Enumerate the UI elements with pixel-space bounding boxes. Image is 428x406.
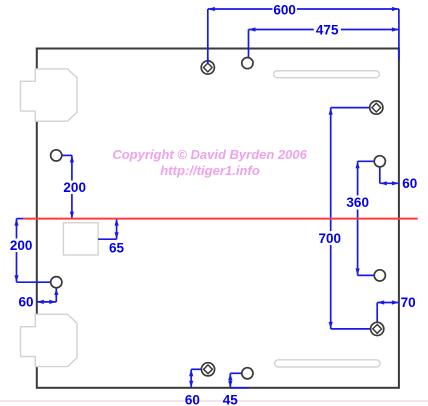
svg-text:600: 600	[273, 2, 296, 17]
svg-text:65: 65	[109, 241, 125, 256]
dimension 60 left	[18, 288, 58, 310]
hole bottom circle	[242, 368, 253, 379]
hole left upper circle	[51, 150, 62, 161]
svg-text:70: 70	[401, 295, 416, 310]
hole top diamond	[201, 59, 214, 75]
dimension 200 upper	[62, 155, 87, 218]
svg-text:200: 200	[63, 180, 86, 195]
dimension 200 lower	[9, 219, 51, 283]
hole right-top diamond	[370, 101, 383, 114]
dimension 70	[377, 295, 416, 322]
svg-text:60: 60	[402, 176, 417, 191]
left lug bottom	[21, 314, 78, 366]
plate outline	[37, 49, 399, 388]
faint line below drawing	[0, 400, 428, 402]
hole left lower circle	[51, 277, 62, 288]
svg-text:200: 200	[10, 238, 33, 253]
red centerline	[23, 218, 418, 220]
bottom slot	[275, 360, 380, 367]
svg-text:475: 475	[316, 23, 339, 38]
left lug top	[21, 69, 78, 121]
hole right-bottom diamond	[371, 322, 384, 335]
hole right lower circle	[374, 270, 385, 281]
dimension 700	[318, 108, 371, 329]
hole top circle	[242, 58, 253, 69]
hole right upper circle	[374, 156, 385, 167]
hole bottom diamond	[201, 363, 214, 376]
dimension 65	[98, 219, 124, 256]
dimension 60 right	[380, 167, 418, 191]
dimension 600	[208, 2, 399, 61]
square opening	[63, 223, 98, 255]
dimension 475	[249, 9, 399, 60]
top slot	[274, 71, 380, 78]
dimension 60 bottom	[185, 369, 202, 406]
svg-text:http://tiger1.info: http://tiger1.info	[160, 163, 260, 178]
svg-text:700: 700	[319, 231, 342, 246]
dimension 360	[346, 161, 375, 275]
svg-text:360: 360	[346, 195, 369, 210]
svg-text:Copyright © David Byrden 2006: Copyright © David Byrden 2006	[112, 147, 307, 162]
svg-text:60: 60	[185, 392, 200, 406]
svg-text:45: 45	[223, 392, 239, 406]
svg-text:60: 60	[18, 295, 33, 310]
dimension 45	[223, 373, 249, 406]
